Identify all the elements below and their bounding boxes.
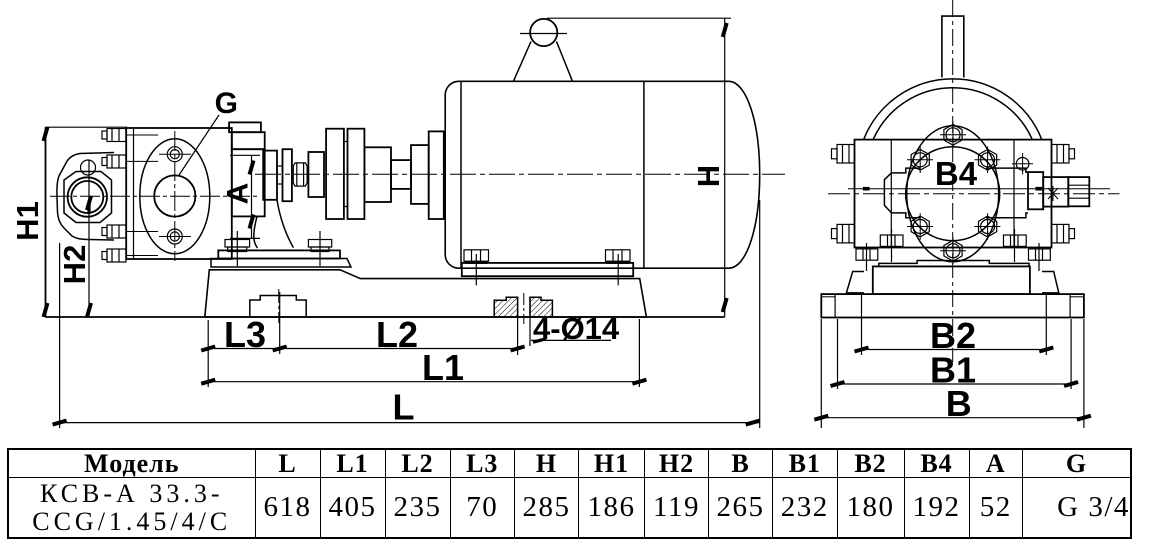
B dimension line xyxy=(814,416,1091,420)
ground line xyxy=(46,316,725,318)
suction port flange blob xyxy=(57,153,114,241)
H1 dimension line xyxy=(44,127,48,317)
flange bolt upper-right xyxy=(974,147,1000,174)
port bar right segment xyxy=(986,168,1028,218)
pump body plate xyxy=(126,128,232,259)
plate bolt 4 xyxy=(102,249,126,262)
plate bolt 3 xyxy=(102,225,126,238)
foot bolt right inner xyxy=(1004,229,1027,262)
H1 extension line top xyxy=(46,126,128,128)
bearing end plate xyxy=(263,151,277,200)
anchor bolt block hatched left part xyxy=(494,297,517,317)
front flange ellipse xyxy=(907,126,999,262)
B2 extension lines xyxy=(861,294,863,355)
B1 dimension line xyxy=(831,382,1079,386)
flange bolt top xyxy=(940,122,966,149)
casing inner arc xyxy=(873,88,1032,140)
plate bolt 1 xyxy=(102,129,126,142)
side bolt lower-right xyxy=(1052,224,1075,243)
motor shaft shoulder xyxy=(411,145,429,204)
svg-text:G: G xyxy=(215,87,238,120)
side bolt upper-left xyxy=(832,145,855,164)
svg-text:L3: L3 xyxy=(224,314,266,355)
vertical centerline xyxy=(952,0,954,362)
coupling disc 2 xyxy=(348,129,365,219)
shaft xyxy=(1043,177,1068,207)
coupling step block xyxy=(308,152,324,197)
flange bolt bottom xyxy=(940,237,966,264)
G leader line xyxy=(179,115,219,175)
bracket neck xyxy=(254,200,294,248)
foot bolt left outer xyxy=(856,243,878,271)
oval discharge flange xyxy=(140,139,210,254)
base slab step right xyxy=(1069,294,1071,317)
pump foot bolt left xyxy=(225,231,250,266)
flange center bore xyxy=(154,175,195,216)
foot bolt right outer xyxy=(1029,243,1051,271)
H dimension line xyxy=(723,18,727,317)
body panel line right xyxy=(1013,140,1015,248)
horizontal centerline xyxy=(828,193,1120,195)
anchor hole edge lines xyxy=(517,297,519,355)
L3 L2 extension lines xyxy=(207,320,209,387)
flange bolts (6) xyxy=(907,122,1000,265)
lifting eye xyxy=(530,19,557,46)
flange bolt lower-left xyxy=(907,213,933,240)
motor end cap line xyxy=(643,81,645,268)
flange bolt hole top xyxy=(167,147,182,162)
left leg xyxy=(846,272,864,293)
coupling hub block xyxy=(364,147,391,202)
plate bolt axis lines xyxy=(126,135,158,256)
lifting eye legs xyxy=(513,42,531,82)
motor shaft xyxy=(391,160,411,189)
body panel line left xyxy=(890,140,892,248)
B4 tick right xyxy=(1035,187,1042,191)
L dimension line xyxy=(53,200,760,428)
motor flange disc xyxy=(429,131,444,219)
flange vertical centerline xyxy=(174,131,176,261)
svg-text:L1: L1 xyxy=(422,347,464,388)
bearing housing block xyxy=(232,149,265,216)
motor body outline xyxy=(445,81,760,268)
base slab step left xyxy=(834,294,836,317)
pump body rectangle xyxy=(855,140,1052,248)
shaft step block xyxy=(1028,172,1043,209)
pedestal pad xyxy=(250,296,306,318)
svg-text:B4: B4 xyxy=(935,155,978,192)
4-O14 leader xyxy=(531,339,611,342)
flange bolt lower-right xyxy=(974,213,1000,240)
L3 dimension line xyxy=(201,347,524,351)
svg-text:L2: L2 xyxy=(376,314,418,355)
pedestal block xyxy=(873,266,1030,294)
top pipe xyxy=(942,16,964,77)
motor face inner line xyxy=(460,81,462,268)
pump foot plate xyxy=(218,250,340,258)
pump feet plate xyxy=(879,261,1029,267)
port bar left end xyxy=(884,168,920,218)
plate bolt 2 xyxy=(102,155,126,168)
flange bolt hole bottom xyxy=(167,229,182,244)
casing outer arc xyxy=(864,79,1042,140)
pump body inner plate line xyxy=(133,128,135,259)
port outer circle xyxy=(68,177,107,216)
H top extension line xyxy=(547,17,731,19)
bedplate outline xyxy=(205,270,647,317)
B4 tick left xyxy=(863,187,870,191)
B4 dimension line xyxy=(848,188,1110,190)
shaft end with keyway xyxy=(1068,177,1089,206)
anchor bolt block hatched right part xyxy=(530,297,552,317)
washer xyxy=(277,166,283,184)
disc spacer lines xyxy=(344,141,348,143)
pump foot bolt right xyxy=(308,231,331,266)
coupling disc 1 xyxy=(326,129,344,219)
specification table xyxy=(7,448,1132,539)
A dimension line xyxy=(230,155,260,238)
side bolt lower-left xyxy=(832,224,855,243)
svg-text:A: A xyxy=(222,183,255,205)
svg-text:B: B xyxy=(946,383,972,424)
pedestal centerline xyxy=(278,289,280,323)
motor foot bolt left xyxy=(464,250,489,285)
L left extension line xyxy=(59,243,61,428)
H2 dimension line xyxy=(87,160,91,317)
svg-text:H1: H1 xyxy=(10,201,45,241)
svg-text:H2: H2 xyxy=(57,245,92,285)
main shaft centerline xyxy=(255,173,785,175)
pump foot lower plate xyxy=(211,259,351,268)
motor foot plate xyxy=(462,263,633,276)
port horizontal centerline xyxy=(50,195,258,197)
bearing housing boss xyxy=(232,132,265,149)
L1 dimension line xyxy=(201,319,646,387)
port top boss circle xyxy=(81,160,96,175)
thin disc xyxy=(283,149,292,201)
B1 extension lines xyxy=(837,319,839,389)
motor foot bolt right xyxy=(606,250,631,285)
gear chamber circle xyxy=(906,147,1000,241)
base slab xyxy=(821,294,1084,317)
B2 dimension line xyxy=(855,348,1054,352)
port hex fitting xyxy=(64,172,112,223)
foot bolt left inner xyxy=(880,229,903,262)
anchor hole centerline xyxy=(523,293,525,324)
B extension lines xyxy=(820,319,822,428)
shaft nut xyxy=(293,163,307,186)
port inner circle xyxy=(71,181,103,213)
small hole with crosshair xyxy=(1016,158,1029,171)
bearing housing boss top xyxy=(229,122,261,132)
side bolt upper-right xyxy=(1052,145,1075,164)
svg-text:H: H xyxy=(691,165,726,187)
bolt hole centerline dashes xyxy=(159,153,191,155)
svg-text:L: L xyxy=(393,387,415,428)
flange bolt upper-left xyxy=(907,147,933,174)
right leg xyxy=(1042,272,1059,293)
break squiggle on shaft xyxy=(1048,186,1058,201)
